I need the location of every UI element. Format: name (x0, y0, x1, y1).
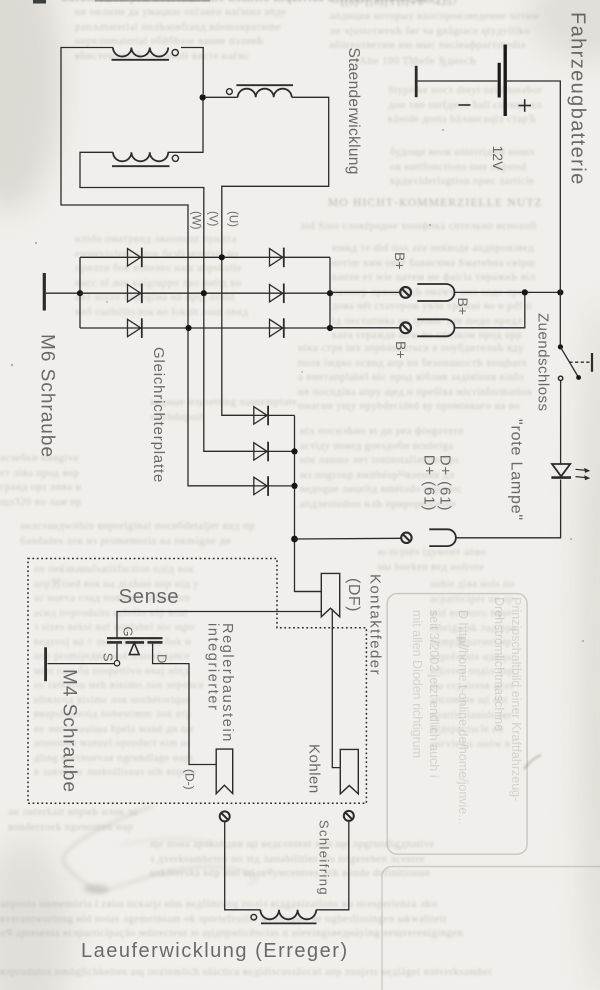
wire row 3 B+ output to screw terminal (330, 327, 400, 329)
svg-text:(DF): (DF) (345, 578, 362, 612)
svg-text:(D-): (D-) (183, 769, 197, 790)
node W phase / row 3 (185, 325, 191, 331)
wire U phase: winding L2 right end, right and down, to rectifier row 1 and exciter diode row A (222, 97, 329, 415)
exciter diode row B wire (204, 450, 295, 452)
connector plug D+ (61) (429, 529, 456, 546)
paper shading layers (0, 0, 60, 210)
MOSFET source wire with terminal circle (48, 644, 120, 666)
stator winding L1 (top) (112, 48, 179, 60)
regulator box (integrierter Reglerbaustein, dotted outline) (28, 559, 366, 804)
diode D7 (exciter row A) (254, 406, 268, 426)
svg-text:M4 Schraube: M4 Schraube (59, 669, 80, 793)
svg-text:12V: 12V (490, 146, 506, 172)
wire M6 screw to B- bus (46, 292, 80, 294)
wire star point to winding L2 (206, 96, 238, 98)
node B+ / row3 riser (522, 289, 528, 295)
svg-text:D: D (155, 654, 170, 663)
wire switch to charge lamp LED (560, 381, 562, 464)
screw terminal slip ring left (220, 811, 230, 821)
node B+ bus / row 2 (327, 290, 333, 296)
wire B+ to battery and ignition (455, 291, 561, 293)
wire rectifier row 2 (80, 292, 330, 294)
wire left slip ring to rotor winding (225, 821, 261, 909)
svg-text:Sense: Sense (119, 585, 180, 608)
wire right slip ring to rotor winding (316, 821, 349, 910)
svg-text:B+: B+ (455, 298, 471, 316)
svg-text:B+: B+ (393, 341, 409, 359)
svg-text:integrierter: integrierter (204, 623, 220, 712)
svg-text:Zuendschloss: Zuendschloss (535, 313, 552, 412)
svg-text:Gleichrichterplatte: Gleichrichterplatte (150, 347, 167, 483)
screw terminal slip ring right (344, 811, 354, 821)
wire D+ output to screw terminal (295, 537, 402, 540)
wire row 2 B+ output to screw terminal (330, 291, 400, 293)
node star point (200, 94, 206, 100)
svg-text:Kohlen: Kohlen (306, 744, 323, 794)
ignition switch (Zuendschloss) (558, 344, 581, 380)
node V phase / row 2 (201, 290, 207, 296)
battery BT1 12V plate plus (long) (504, 45, 507, 117)
wire B- bus (left vertical of rectifier) (79, 257, 81, 328)
exciter diode row A wire (222, 414, 295, 416)
M6 screw (B- ground stud) (43, 273, 46, 311)
contact spring DF (pennant) (321, 573, 339, 616)
svg-text:Schleifring: Schleifring (317, 820, 332, 896)
crease marks (63, 806, 256, 894)
paper specks (11, 129, 584, 642)
wire battery plus to B+ node (507, 81, 560, 292)
wire ground stud to battery (418, 80, 498, 82)
wire B+ node down to ignition switch (559, 292, 561, 345)
diode D2 (row 2 left) (128, 284, 142, 304)
wire winding L1 right end to star point (181, 48, 203, 95)
pencil mark right side (524, 755, 541, 769)
svg-text:(W): (W) (190, 211, 202, 230)
diode D9 (exciter row C) (254, 476, 268, 496)
stator winding L3 (lower left) (112, 152, 178, 166)
MOSFET drain wire to D- brush (153, 644, 217, 765)
rotor winding (Laeuferwicklung) (251, 910, 317, 924)
battery plus sign (519, 99, 532, 112)
svg-text:(U): (U) (227, 211, 239, 227)
carbon brush (Kohle, DF side) (340, 749, 358, 794)
svg-text:D+ (61): D+ (61) (420, 455, 437, 512)
battery BT1 12V plate minus (short) (498, 63, 501, 98)
stator winding L2 (right, star point side) (227, 85, 294, 97)
node U phase / row 1 (219, 254, 225, 260)
M4 screw stud (44, 647, 47, 681)
wire V phase: winding L3 left end, down, to rectifier row 2 and exciter diode row B (80, 152, 254, 451)
svg-text:(V): (V) (207, 211, 219, 227)
carbon brush (Kohle, D- side) (216, 749, 233, 794)
diode D6 (row 3 right) (270, 318, 284, 338)
top edge dark dash (33, 0, 46, 4)
screw terminal D+ (401, 533, 411, 543)
wire B+ bus (right vertical of rectifier) (329, 257, 331, 328)
diode D4 (row 1 right) (270, 248, 284, 268)
svg-text:B+: B+ (392, 252, 408, 270)
MOSFET Q1 (107, 638, 163, 654)
node D+ bus / row C (291, 483, 297, 489)
battery minus sign (459, 104, 471, 106)
svg-text:M6 Schraube: M6 Schraube (37, 334, 58, 458)
node B- bus / row 2 (77, 290, 83, 296)
svg-text:Fahrzeugbatterie: Fahrzeugbatterie (567, 12, 589, 186)
connector plug B+ (row 2) (417, 284, 454, 301)
ignition key actuator (570, 353, 593, 372)
wire rectifier row 1 (80, 256, 330, 258)
svg-text:Reglerbaustein: Reglerbaustein (219, 623, 235, 743)
svg-text:D+ (61): D+ (61) (436, 455, 453, 512)
LED charge lamp (rote Lampe) (551, 464, 590, 480)
svg-text:"rote Lampe": "rote Lampe" (508, 419, 525, 521)
wire D+ plug to charge lamp (456, 480, 561, 538)
node B+ / battery (557, 289, 563, 295)
svg-text:S: S (101, 653, 116, 662)
wire rectifier row 3 (80, 327, 330, 329)
diode D8 (exciter row B) (254, 442, 268, 462)
chassis ground stud (battery minus) (415, 66, 418, 97)
wire D+ bus (exciter output) down to DF spring (295, 415, 322, 591)
screw terminal B+ (row 2) (400, 287, 411, 298)
node D+ bus / D+ output (291, 536, 298, 543)
MOSFET Q1 gate wire (Sense) (117, 612, 321, 639)
node B+ bus / row 3 (327, 325, 333, 331)
diode D5 (row 2 right) (270, 284, 284, 304)
diode D1 (row 1 left) (128, 248, 142, 268)
svg-text:Kontaktfeder: Kontaktfeder (367, 574, 384, 676)
svg-text:Staenderwicklung: Staenderwicklung (345, 48, 362, 175)
wire row 3 plug up to B+ node (455, 296, 525, 328)
exciter diode row C wire (189, 485, 295, 487)
wire D+ bus to DF contact spring (295, 591, 322, 593)
svg-text:Laeuferwicklung (Erreger): Laeuferwicklung (Erreger) (81, 940, 349, 962)
diode D3 (row 3 left) (128, 318, 142, 338)
wire W phase: winding L1 left end, down left side, to rectifier row 3 and exciter diode row C (61, 48, 254, 486)
connector plug B+ (row 3) (417, 319, 454, 336)
screw terminal B+ (row 3) (400, 322, 411, 333)
node D+ bus / row B (291, 448, 297, 454)
wire star point down to winding L3 right end (168, 101, 203, 153)
svg-text:G: G (121, 627, 136, 637)
wire DF spring down to brush (332, 609, 340, 767)
